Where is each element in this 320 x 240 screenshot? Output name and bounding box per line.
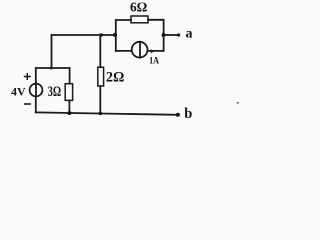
node dot riser tee [50,67,53,70]
svg-text:3Ω: 3Ω [48,84,61,100]
wire top bus [52,34,117,36]
wire 4V top lead [35,68,37,84]
wire 2ohm top lead [99,35,101,67]
wire 6ohm left lead [116,19,131,21]
resistor R 3ohm [65,84,72,101]
node a terminal dot [177,33,180,36]
plus sign [25,74,31,80]
wire left riser [51,35,53,68]
wire right vertical [163,20,165,51]
wire top-left segment [36,67,70,69]
svg-text:b: b [184,106,192,122]
wire 3ohm top lead [69,68,71,84]
node b terminal dot [176,113,180,117]
svg-text:4V: 4V [11,84,26,98]
svg-text:6Ω: 6Ω [130,1,147,16]
voltage source 4V [30,84,43,97]
node dot 3ohm bottom [67,111,71,115]
wire 4V bottom lead [35,96,37,112]
current source 1A [132,42,148,58]
wire 6ohm right lead [148,19,164,21]
resistor R 2ohm [98,67,104,86]
wire 3ohm bottom lead [68,100,70,113]
wire current source right lead [148,50,164,52]
wire terminal a lead [164,34,178,36]
resistor R 6ohm [131,16,148,23]
svg-text:1A: 1A [149,57,159,67]
wire 4V source bar [35,84,37,97]
node dot a tee [162,33,166,37]
node dot 2ohm top [99,33,103,37]
wire current source left lead [116,50,132,52]
svg-text:a: a [186,27,193,42]
node dot 2ohm bottom [99,112,103,116]
wire 2ohm bottom lead [99,86,101,114]
node dot left tee [113,33,117,37]
wire current source bar [139,42,141,58]
arrowhead on current source right lead [151,49,155,53]
minus sign [25,103,30,105]
wire bottom rail [36,112,178,114]
svg-text:2Ω: 2Ω [106,70,125,86]
wire left vertical [115,20,117,51]
speck [237,102,239,104]
